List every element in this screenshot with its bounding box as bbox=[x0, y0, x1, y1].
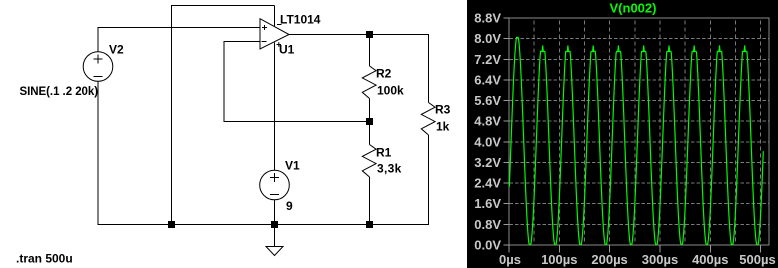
resistor R3 bbox=[421, 103, 435, 136]
svg-text:9: 9 bbox=[286, 199, 293, 213]
resistor R1 bbox=[362, 145, 376, 178]
wire R3 bottom to ground rail bbox=[428, 135, 430, 225]
svg-text:0µs: 0µs bbox=[499, 252, 521, 267]
svg-text:R3: R3 bbox=[435, 103, 451, 117]
op-amp U1 LT1014 bbox=[260, 19, 289, 49]
svg-text:100µs: 100µs bbox=[541, 252, 577, 267]
waveform pane background bbox=[467, 0, 778, 268]
wire V1 bottom to ground rail bbox=[274, 200, 276, 225]
svg-text:R2: R2 bbox=[376, 67, 392, 81]
wire V2 top to op-amp non-inverting input bbox=[98, 28, 260, 52]
wire op-amp V+ supply pin to V1 plus bbox=[274, 43, 276, 171]
ground symbol bbox=[266, 247, 283, 256]
node junction dot at R1 bottom / ground rail bbox=[366, 221, 373, 228]
svg-text:LT1014: LT1014 bbox=[280, 13, 321, 27]
svg-text:6.4V: 6.4V bbox=[474, 72, 501, 87]
node junction dot at R2/R1 feedback node bbox=[366, 118, 373, 125]
wire R1 bottom to ground rail bbox=[369, 177, 371, 225]
node junction dot at left vertical / ground rail bbox=[168, 221, 175, 228]
waveform x-axis ticks bbox=[509, 245, 761, 253]
svg-text:1k: 1k bbox=[436, 120, 450, 134]
svg-text:4.8V: 4.8V bbox=[474, 114, 501, 129]
svg-text:V(n002): V(n002) bbox=[610, 1, 657, 16]
waveform y-axis labels bbox=[474, 11, 501, 253]
wire op-amp inverting input to R2/R1 node bbox=[224, 42, 370, 122]
svg-text:200µs: 200µs bbox=[591, 252, 627, 267]
svg-text:300µs: 300µs bbox=[642, 252, 678, 267]
waveform x-axis labels bbox=[499, 252, 776, 267]
svg-text:500µs: 500µs bbox=[739, 252, 775, 267]
svg-text:3,3k: 3,3k bbox=[377, 162, 402, 176]
node junction dot at op-amp output / R2 top bbox=[366, 31, 373, 38]
waveform horizontal gridlines bbox=[510, 39, 769, 225]
wire op-amp V- supply pin stub bbox=[274, 6, 276, 27]
voltage source V1 bbox=[260, 170, 290, 200]
svg-text:100k: 100k bbox=[377, 84, 404, 98]
svg-text:1.6V: 1.6V bbox=[474, 196, 501, 211]
svg-text:U1: U1 bbox=[279, 43, 295, 57]
wire R1 top stub bbox=[369, 122, 371, 145]
waveform vertical gridlines bbox=[534, 19, 760, 245]
voltage source V2 bbox=[83, 52, 113, 82]
svg-text:4.0V: 4.0V bbox=[474, 134, 501, 149]
svg-text:8.8V: 8.8V bbox=[474, 11, 501, 26]
wire V2 bottom to ground rail bbox=[97, 82, 99, 226]
svg-text:5.6V: 5.6V bbox=[474, 93, 501, 108]
svg-text:SINE(.1 .2 20k): SINE(.1 .2 20k) bbox=[20, 86, 99, 98]
svg-text:.tran 500u: .tran 500u bbox=[16, 252, 73, 266]
svg-text:V1: V1 bbox=[285, 159, 300, 173]
svg-text:3.2V: 3.2V bbox=[474, 155, 501, 170]
wire R2 top stub bbox=[369, 35, 371, 67]
svg-text:2.4V: 2.4V bbox=[474, 176, 501, 191]
svg-text:V2: V2 bbox=[109, 43, 124, 57]
waveform y-axis ticks bbox=[504, 18, 510, 245]
svg-text:0.0V: 0.0V bbox=[474, 238, 501, 253]
node junction dot at V1 / ground rail bbox=[271, 221, 278, 228]
waveform plot border bbox=[509, 18, 769, 245]
wire top feedback of V- supply to ground rail bbox=[172, 6, 275, 226]
svg-text:400µs: 400µs bbox=[692, 252, 728, 267]
wire ground stub below rail bbox=[274, 225, 276, 247]
svg-text:8.0V: 8.0V bbox=[474, 31, 501, 46]
trace V(n002) bbox=[509, 37, 763, 244]
svg-text:R1: R1 bbox=[376, 146, 392, 160]
wire R2 bottom stub bbox=[369, 99, 371, 122]
resistor R2 bbox=[362, 66, 376, 99]
svg-text:7.2V: 7.2V bbox=[474, 52, 501, 67]
wire op-amp output to R3 top bbox=[289, 35, 429, 103]
svg-text:0.8V: 0.8V bbox=[474, 217, 501, 232]
wire bottom ground rail bbox=[98, 224, 430, 226]
